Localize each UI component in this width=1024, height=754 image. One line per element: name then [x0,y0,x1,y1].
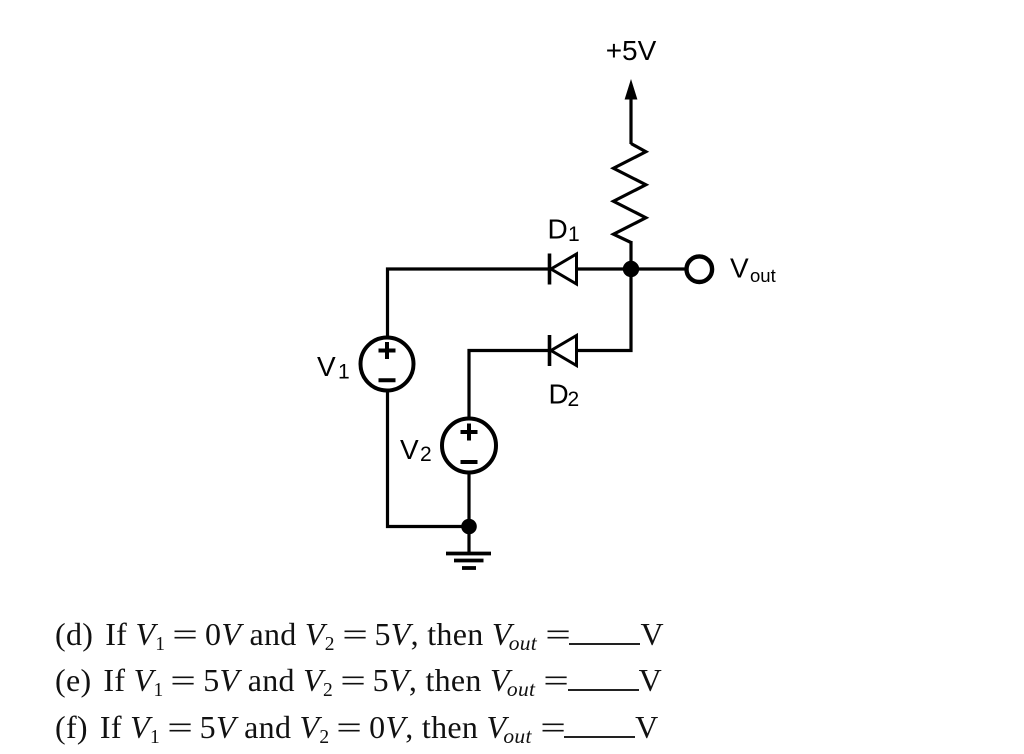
wire D1 to V1 (top horizontal) [388,269,550,337]
svg-text:2: 2 [568,388,580,411]
diode D2 [550,335,577,366]
node junction dot (Vout node) [623,261,639,277]
wire D2 to node (right branch) [577,269,632,351]
wire resistor to node [629,241,632,269]
question line (e) [55,662,662,698]
Vout terminal circle [687,256,713,282]
wire V2 top to D2 [469,351,550,420]
svg-text:+5V: +5V [606,35,657,66]
svg-text:D: D [548,213,568,244]
D1 label [548,213,580,246]
D2 label [549,378,580,411]
svg-text:V: V [400,434,419,465]
resistor R1 [614,144,646,243]
svg-text:V: V [730,253,749,284]
voltage source V2 [442,419,496,473]
svg-text:V: V [317,351,336,382]
diode D1 [550,254,577,285]
svg-text:2: 2 [420,443,432,466]
wire V2 bottom to ground node [467,472,470,527]
question line (d) [55,616,664,652]
V2 label [400,434,432,466]
+5V supply arrow [625,79,638,144]
ground node dot [461,519,477,535]
wire node to D1 [577,267,632,270]
wire V1 bottom to ground rail [388,391,470,527]
V1 label [317,351,350,384]
ground symbol [446,527,491,569]
svg-text:1: 1 [568,223,580,246]
+5V supply label [606,35,657,66]
svg-text:1: 1 [338,361,350,384]
wire node to Vout terminal [631,267,685,270]
question line (f) [55,709,659,745]
voltage source V1 [361,338,414,391]
svg-text:out: out [750,265,776,286]
Vout label [730,253,776,287]
svg-text:D: D [549,378,569,409]
